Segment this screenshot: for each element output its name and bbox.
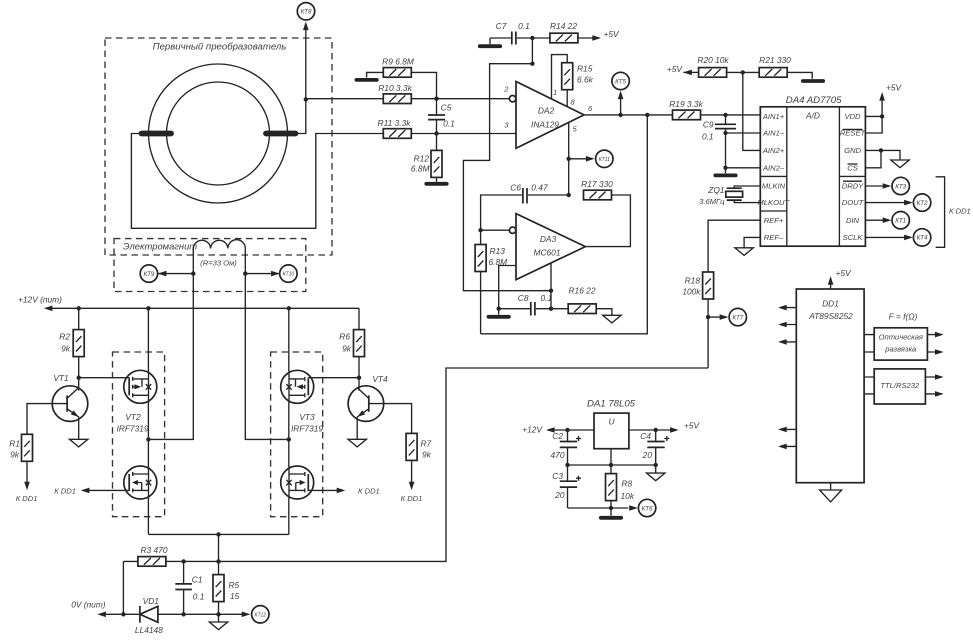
crystal ZQ1 3.6MHz [699, 185, 760, 206]
svg-text:DA4 AD7705: DA4 AD7705 [786, 95, 842, 106]
svg-text:R17 330: R17 330 [581, 179, 613, 189]
svg-text:10k: 10k [621, 491, 635, 501]
svg-text:R5: R5 [229, 580, 240, 590]
svg-text:КТ1: КТ1 [895, 218, 906, 225]
capacitor C6 0.47 [481, 182, 569, 230]
svg-text:R21 330: R21 330 [759, 55, 791, 65]
svg-text:6.6k: 6.6k [577, 75, 594, 85]
resistor R16 22 [551, 285, 621, 323]
wire: C7 node to R14 and +5V arrow [530, 29, 620, 41]
svg-text:9k: 9k [10, 450, 20, 460]
resistor R5 15 [213, 561, 240, 614]
capacitor C1 0.1 [175, 561, 204, 614]
svg-text:К DD1: К DD1 [401, 494, 423, 503]
svg-text:К DD1: К DD1 [54, 487, 76, 496]
svg-text:+12V: +12V [522, 424, 543, 434]
svg-text:0.47: 0.47 [531, 182, 548, 192]
svg-text:C2: C2 [552, 431, 563, 441]
svg-text:DD1: DD1 [822, 298, 839, 308]
svg-text:C8: C8 [518, 293, 529, 303]
resistor R17 330 [581, 179, 613, 200]
wire: R20 to R21 with AIN2+ tap [727, 70, 761, 150]
svg-text:+5V: +5V [684, 420, 701, 430]
svg-text:VDD: VDD [844, 112, 861, 121]
svg-text:R2: R2 [59, 332, 70, 342]
op-amp DA3 MC601 [509, 214, 585, 280]
wire: DA2 output pin 6 [584, 113, 672, 117]
+5V feed with R20 R21 divider [667, 64, 699, 75]
svg-text:IRF7319: IRF7319 [291, 424, 323, 434]
svg-text:R20 10k: R20 10k [697, 55, 729, 65]
svg-text:DA1 78L05: DA1 78L05 [587, 399, 636, 410]
wire: R9 right down to node [411, 72, 436, 98]
svg-text:Первичный преобразователь: Первичный преобразователь [153, 42, 287, 53]
mosfet VT3 lower [281, 466, 314, 499]
svg-text:IRF7319: IRF7319 [116, 424, 148, 434]
test point KT7 [729, 308, 746, 325]
svg-text:R12: R12 [414, 153, 430, 163]
svg-text:GND: GND [844, 146, 861, 155]
svg-text:КТ5: КТ5 [615, 78, 626, 85]
svg-text:КТ7: КТ7 [732, 314, 743, 321]
svg-text:9k: 9k [61, 344, 71, 354]
svg-text:+5V: +5V [604, 29, 621, 39]
+12V supply rail [18, 295, 359, 311]
DD1 port arrows left [778, 305, 796, 449]
svg-text:К DD1: К DD1 [16, 494, 38, 503]
svg-text:R19 3.3k: R19 3.3k [669, 99, 703, 109]
ground under R5 [209, 614, 227, 629]
svg-text:VD1: VD1 [143, 596, 159, 606]
svg-text:КТ6: КТ6 [642, 505, 653, 512]
wire: VT3 source down to bridge foot [288, 499, 290, 535]
wire: R19 to AIN1+ [701, 113, 761, 117]
svg-text:0.1: 0.1 [443, 119, 455, 129]
wire: inductor right lead down to VT3 node [243, 248, 289, 439]
svg-text:AIN1–: AIN1– [762, 129, 785, 138]
svg-text:R16 22: R16 22 [568, 285, 595, 295]
test point KT8 [297, 3, 314, 20]
svg-text:0.1: 0.1 [702, 131, 714, 141]
svg-text:AT89S8252: AT89S8252 [808, 311, 853, 321]
wire: VT3 gate node [308, 376, 361, 380]
svg-text:МС601: МС601 [534, 248, 561, 258]
wire: supply-ground jumper from C7 node down to DA3 net [463, 38, 551, 291]
dashed block: primary transducer [105, 38, 332, 255]
wire: inductor left lead down to VT2 node [148, 248, 195, 439]
svg-text:+5V: +5V [667, 64, 684, 74]
svg-text:3.6МГц: 3.6МГц [699, 197, 725, 206]
svg-text:Электромагнит: Электромагнит [123, 241, 197, 252]
svg-text:SCLK: SCLK [843, 233, 864, 242]
wire: feedback from DA2 output down to R13 [481, 115, 648, 334]
svg-text:КТ9: КТ9 [143, 271, 154, 278]
transistor VT1 [52, 373, 88, 421]
voltage regulator DA1 78L05 [587, 399, 636, 449]
resistor R6 9k [339, 308, 364, 377]
svg-text:C3: C3 [552, 471, 563, 481]
wire: R11 right to DA2 pin3 [411, 131, 516, 135]
svg-text:К DD1: К DD1 [949, 207, 971, 216]
capacitor C8 0.1 [489, 293, 553, 317]
test point KT4 on SCLK [865, 229, 930, 246]
svg-text:КТ12: КТ12 [255, 612, 267, 618]
dashed block transistor VT2 IRF7319 [113, 352, 165, 517]
diode VD1 LL4148 [135, 596, 163, 635]
node between VT3 mosfets [287, 403, 291, 467]
wire: right electrode up to KT8 node [296, 22, 309, 134]
svg-text:+5V: +5V [836, 268, 853, 278]
svg-text:VT4: VT4 [372, 374, 388, 384]
test point KT2 on DOUT [865, 194, 930, 211]
dashed block transistor VT3 IRF7319 [271, 352, 324, 517]
svg-text:2: 2 [503, 85, 509, 94]
capacitor C9 0.1 [702, 115, 736, 141]
svg-text:C7: C7 [496, 21, 507, 31]
svg-text:C6: C6 [510, 182, 521, 192]
electrode right [266, 131, 296, 137]
svg-text:R9 6.8М: R9 6.8М [382, 56, 414, 66]
svg-text:R8: R8 [622, 479, 633, 489]
electrode left [142, 131, 172, 137]
svg-text:20: 20 [554, 490, 565, 500]
test point KT10 with arrow [245, 265, 297, 282]
wire: +12V to VT3 upper drain [288, 308, 290, 371]
wire: left electrode loop to R11 [131, 134, 384, 229]
svg-text:КТ3: КТ3 [895, 183, 906, 190]
capacitor C4 20 electrolytic [640, 430, 669, 465]
svg-text:VT2: VT2 [125, 412, 141, 422]
svg-text:0.1: 0.1 [518, 21, 530, 31]
test point KT1 on DIN [865, 212, 909, 229]
svg-text:КТ2: КТ2 [917, 200, 928, 207]
test point KT9 with arrow [140, 265, 193, 282]
wire: +12V input [522, 424, 594, 434]
resistor R13 6.8M [475, 230, 507, 334]
test point KT6 [629, 499, 656, 516]
wire: R10 right to DA2 pin2 [411, 97, 509, 101]
svg-text:F = f(Ω): F = f(Ω) [889, 312, 918, 322]
svg-text:R3 470: R3 470 [140, 545, 167, 555]
microcontroller DD1 AT89S8252 [796, 289, 864, 483]
wire: C9 to AIN1- and AIN2- ground net [715, 131, 760, 176]
svg-text:(R=33 Ом): (R=33 Ом) [200, 258, 237, 267]
wire: R3 left leg down to 0V [122, 561, 124, 614]
svg-text:AIN1+: AIN1+ [762, 112, 785, 121]
wire: +5V output [629, 420, 701, 432]
mosfet VT2 upper [124, 370, 157, 403]
capacitor C5 0.1 [428, 99, 455, 134]
resistor R2 9k [59, 308, 84, 377]
capacitor C2 470 electrolytic [551, 430, 581, 465]
wire: VT2 lower gate to DD1 [54, 487, 130, 496]
wire: R17 to DA3 output [585, 195, 630, 247]
svg-text:0V (пит): 0V (пит) [71, 600, 106, 610]
wire: GND and CS to ground [865, 148, 909, 168]
wire: VT2 source down to bridge foot [147, 499, 149, 535]
svg-text:R18: R18 [685, 276, 701, 286]
capacitor C7 0.1 [480, 21, 533, 46]
wire: R21 to ground bar [787, 72, 823, 81]
svg-text:9k: 9k [342, 344, 352, 354]
wire: C3 and R8 foot node [568, 506, 629, 518]
resistor R1 9k on VT1 base [9, 404, 52, 503]
wire: node to R10 [306, 98, 384, 100]
resistor R3 470 [138, 545, 168, 566]
svg-text:100k: 100k [682, 287, 701, 297]
svg-text:AIN2+: AIN2+ [762, 146, 785, 155]
wire: regulator ground bus [565, 449, 658, 475]
svg-text:MLKOUT: MLKOUT [757, 198, 790, 207]
svg-text:+12V (пит): +12V (пит) [18, 295, 62, 305]
svg-text:470: 470 [551, 450, 565, 460]
svg-text:КТ4: КТ4 [917, 235, 928, 242]
svg-text:INA129: INA129 [531, 120, 559, 130]
svg-text:CS: CS [847, 163, 858, 172]
wire: DA3 inverting input [478, 228, 509, 232]
svg-text:C5: C5 [441, 103, 452, 113]
wire: +12V to VT2 upper drain [147, 308, 149, 371]
toroidal sensor ring [149, 64, 288, 203]
wire: DA3 non-inverting input to ground [499, 266, 516, 309]
svg-text:R6: R6 [339, 332, 350, 342]
svg-text:1: 1 [553, 88, 557, 97]
ground of VT1 emitter [70, 417, 88, 447]
wire: DD1 +5V [828, 268, 852, 289]
resistor R8 10k [606, 474, 635, 508]
wire: R9 left to ground bar [356, 72, 383, 80]
node between VT2 mosfets to electromagnet [146, 403, 150, 467]
svg-text:VT3: VT3 [299, 412, 315, 422]
block optical isolation [864, 312, 944, 360]
wire: REF- to ground [735, 237, 760, 255]
svg-text:C1: C1 [192, 575, 203, 585]
wire: VDD and RESET to +5V [865, 83, 902, 133]
svg-text:DRDY: DRDY [842, 182, 864, 191]
svg-text:DOUT: DOUT [842, 198, 865, 207]
wire: VT3 lower gate to DD1 [308, 487, 380, 496]
svg-text:R11 3.3k: R11 3.3k [378, 118, 412, 128]
resistor R12 6.8M [411, 134, 447, 184]
svg-text:КТ8: КТ8 [301, 9, 312, 16]
ground under DD1 [820, 483, 842, 502]
wire: DA3 V- pin down [549, 263, 553, 311]
resistor R15 6.6k on gain pins 1-8 [552, 55, 594, 107]
wire: DA2 pin 5 down [567, 122, 571, 197]
svg-text:Оптическая: Оптическая [879, 333, 923, 342]
svg-text:R10 3.3k: R10 3.3k [378, 83, 412, 93]
svg-text:9k: 9k [422, 450, 432, 460]
capacitor C3 20 electrolytic [552, 465, 581, 508]
svg-text:A/D: A/D [805, 111, 820, 121]
svg-text:R7: R7 [421, 439, 432, 449]
resistor R10 3.3k [378, 83, 412, 104]
svg-text:VT1: VT1 [53, 373, 68, 383]
resistor R18 100k [682, 272, 713, 299]
test point KT5 [612, 72, 629, 115]
svg-text:LL4148: LL4148 [135, 625, 163, 635]
0V rail [71, 600, 248, 618]
svg-text:TTL/RS232: TTL/RS232 [880, 381, 920, 390]
svg-text:КТ11: КТ11 [599, 157, 610, 163]
svg-text:К DD1: К DD1 [358, 487, 380, 496]
svg-text:R13: R13 [490, 246, 506, 256]
resistor R20 10k [697, 55, 729, 77]
svg-text:R14 22: R14 22 [550, 21, 577, 31]
svg-text:КТ10: КТ10 [283, 272, 295, 278]
svg-text:DA2: DA2 [538, 106, 555, 116]
resistor R21 330 [759, 55, 791, 77]
svg-text:DA3: DA3 [540, 234, 557, 244]
test point KT12 [242, 606, 269, 623]
svg-text:U: U [608, 417, 615, 427]
resistor R7 9k on VT4 base [384, 404, 432, 503]
svg-text:REF–: REF– [764, 233, 784, 242]
svg-text:C9: C9 [703, 119, 714, 129]
dashed block: electromagnet [114, 239, 306, 292]
inductor L (R=33 Ohm) [193, 240, 245, 268]
test point KT11 [569, 150, 613, 167]
op-amp DA2 INA129 [503, 82, 593, 149]
svg-text:AIN2–: AIN2– [762, 163, 785, 172]
svg-text:0.1: 0.1 [193, 592, 205, 602]
ground under C4 [647, 465, 665, 481]
svg-text:C4: C4 [640, 431, 651, 441]
svg-text:ZQ1: ZQ1 [707, 185, 724, 195]
svg-text:20: 20 [642, 450, 653, 460]
transistor VT4 [348, 374, 388, 421]
block TTL/RS232 [864, 369, 944, 404]
ground of VT4 emitter [348, 417, 366, 447]
svg-text:15: 15 [230, 591, 240, 601]
wire: bridge foot [148, 532, 288, 561]
resistor R19 3.3k [669, 99, 703, 120]
bracket to DD1 [936, 177, 971, 248]
A/D converter DA4 AD7705 [757, 95, 866, 246]
svg-text:0.1: 0.1 [541, 293, 553, 303]
svg-text:DIN: DIN [846, 216, 860, 225]
mosfet VT3 upper [281, 370, 314, 403]
svg-text:REF+: REF+ [764, 216, 784, 225]
resistor R11 3.3k [378, 118, 412, 138]
test point KT3 on DRDY [865, 177, 909, 194]
svg-text:+5V: +5V [886, 83, 903, 93]
mosfet VT2 lower [124, 466, 157, 499]
wire: sense node line to REF+ riser [123, 368, 708, 564]
resistor R14 22 [550, 21, 578, 43]
wire: REF+ sense line from R5 node [706, 220, 760, 368]
svg-text:MLKIN: MLKIN [762, 182, 786, 191]
svg-text:R15: R15 [577, 64, 593, 74]
svg-text:6.8М: 6.8М [411, 163, 430, 173]
svg-text:R1: R1 [9, 439, 20, 449]
resistor R9 6.8M [382, 56, 414, 77]
svg-text:развязка: развязка [884, 344, 916, 353]
node VT1 collector / VT2 gate [77, 376, 130, 380]
